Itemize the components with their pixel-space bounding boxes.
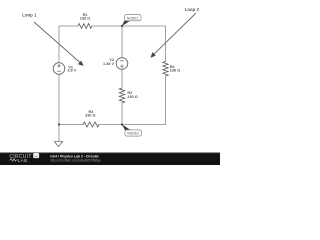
resistor R2 (vertical zigzag) bbox=[119, 88, 124, 103]
node NODE1 label box bbox=[124, 15, 141, 21]
svg-text:138 Ω: 138 Ω bbox=[80, 17, 90, 21]
svg-text:LAB: LAB bbox=[18, 158, 28, 164]
annotation Loop 1 arrowhead bbox=[78, 61, 84, 66]
wire top-right of R1 to NODE1 junction bbox=[92, 25, 122, 27]
wire right branch upper (corner to R4) bbox=[165, 26, 167, 62]
wire middle branch upper (top wire to V2) bbox=[121, 26, 123, 58]
svg-text:330 Ω: 330 Ω bbox=[85, 113, 95, 117]
svg-text:NODE2: NODE2 bbox=[127, 132, 139, 136]
svg-text:Loop 2: Loop 2 bbox=[185, 7, 200, 12]
wire NODE1 to top-right corner bbox=[122, 25, 166, 27]
svg-text:3.8 V: 3.8 V bbox=[67, 69, 76, 73]
node NODE2 label box bbox=[125, 130, 142, 136]
svg-text:NODE1: NODE1 bbox=[127, 16, 139, 20]
svg-text:138 Ω: 138 Ω bbox=[170, 69, 180, 73]
wire right branch lower (R4 to corner) bbox=[165, 76, 167, 125]
voltage source V2 (circle, - top, + bottom) bbox=[116, 58, 128, 70]
annotation Loop 2 arrowhead bbox=[151, 52, 156, 58]
wire top-left horizontal (node left to R1) bbox=[59, 25, 78, 27]
svg-text:Loop 1: Loop 1 bbox=[22, 13, 37, 18]
resistor R3 (horizontal zigzag on bottom wire) bbox=[83, 122, 99, 127]
svg-text:http://circuitlab.com/c/ku626z: http://circuitlab.com/c/ku626zf6l6qo bbox=[50, 158, 101, 162]
footer logo resistor squiggle bbox=[9, 159, 17, 162]
wire R3 to NODE2 junction bbox=[99, 124, 122, 126]
wire left branch lower (V1 bottom to bottom junction) bbox=[58, 75, 60, 125]
node NODE1 callout tail bbox=[122, 21, 130, 27]
wire ground stem bbox=[58, 125, 60, 142]
wire NODE2 to bottom-right corner bbox=[122, 124, 166, 126]
footer logo white box bbox=[33, 153, 39, 158]
annotation Loop 2 arrow wire bbox=[154, 13, 196, 55]
wire middle branch lower (R2 to bottom wire) bbox=[121, 103, 123, 125]
svg-text:1.38 V: 1.38 V bbox=[103, 62, 114, 66]
wire bottom-left horizontal (junction to R3) bbox=[59, 124, 83, 126]
wire left branch upper (corner to V1 top) bbox=[58, 26, 60, 63]
ground bbox=[54, 142, 62, 147]
junction dot NODE1 bbox=[121, 25, 123, 27]
annotation Loop 1 arrow wire bbox=[34, 22, 81, 63]
resistor R4 (vertical zigzag) bbox=[163, 62, 168, 76]
wire middle branch between V2 and R2 bbox=[121, 70, 123, 89]
footer bar bbox=[0, 153, 220, 166]
junction dot NODE2 bbox=[121, 123, 123, 125]
resistor R1 (horizontal zigzag) bbox=[78, 24, 92, 29]
svg-text:230 Ω: 230 Ω bbox=[127, 95, 137, 99]
node NODE2 callout tail bbox=[122, 124, 131, 130]
junction dot left-bottom bbox=[58, 123, 60, 125]
voltage source V1 (circle, + top, - bottom) bbox=[53, 63, 65, 75]
